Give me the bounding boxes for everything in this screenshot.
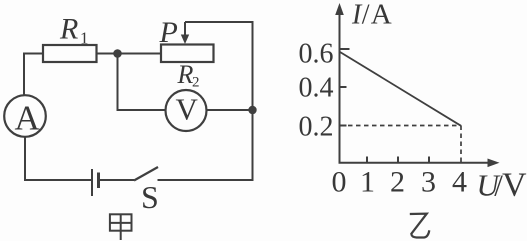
voltmeter V [166,90,207,131]
x tick 2 [397,157,399,163]
svg-text:2: 2 [192,75,200,91]
wire: left top from corner to R1 [24,54,43,96]
svg-text:2: 2 [390,166,405,199]
svg-text:/: / [362,0,370,31]
label jia (甲) [110,214,132,240]
resistor R1 [43,45,97,62]
svg-text:V: V [176,92,199,127]
graph y-axis [339,8,341,164]
dashed vertical at 4 [460,126,462,164]
svg-text:A: A [15,99,41,138]
wire: voltmeter to node B [207,109,253,111]
x tick 3 [428,157,430,163]
svg-text:R: R [59,13,78,46]
switch S lever [134,167,158,181]
label yi (乙) [410,214,430,238]
wire: slider top to right rail [185,22,253,110]
wire: R1 to node A [97,53,118,55]
battery: long plate [91,169,93,196]
svg-text:0.4: 0.4 [299,73,334,104]
slider P arrow [184,22,186,37]
svg-text:P: P [159,16,178,49]
graph x-axis [339,162,493,164]
node B (junction dot) [248,106,256,114]
svg-text:0: 0 [332,166,347,199]
wire: right rail down to bottom [252,110,254,180]
svg-text:0.2: 0.2 [299,112,334,143]
ammeter A [4,95,46,137]
svg-text:4: 4 [452,166,467,199]
I-U line [340,52,461,126]
svg-text:3: 3 [421,166,436,199]
wire: node A to R2 [118,53,162,55]
rheostat R2 body [161,45,214,63]
svg-text:1: 1 [80,29,89,48]
wire: node A down to voltmeter [118,54,166,111]
x tick 1 [366,157,368,163]
battery: short plate [97,173,100,189]
y tick 0.6 [340,48,350,50]
svg-text:1: 1 [360,166,375,199]
node A (junction dot) [113,49,122,58]
wire: battery to switch [99,179,135,181]
svg-text:R: R [177,60,194,89]
svg-text:V: V [502,167,527,204]
dashed level 0.2 [340,125,461,127]
wire: switch to right rail bottom [158,179,254,181]
svg-text:S: S [141,179,159,215]
wire: ammeter down and bottom left wire [25,137,92,180]
y tick 0.4 [340,86,347,88]
svg-text:A: A [371,0,392,31]
svg-text:0.6: 0.6 [299,39,334,70]
y tick 0.2 [340,125,347,127]
